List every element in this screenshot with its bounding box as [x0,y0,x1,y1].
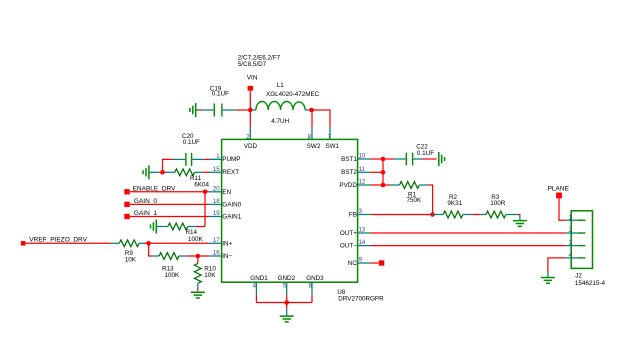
pin SW1 7 [325,127,339,150]
wire VREF to R9 [25,242,119,244]
svg-text:100R: 100R [490,200,506,207]
wire BST vertical link [382,159,384,185]
pin NC 9 [348,258,371,268]
pin OUT- 14 [340,240,371,250]
wire R9 to IN+ [144,242,209,244]
svg-text:19: 19 [213,211,220,217]
resistor R1 750K [400,182,429,205]
svg-text:PVDD: PVDD [339,182,357,189]
wire R3 to ground [517,214,520,220]
inductor L1 XGL4020-472MEC 4.7UH [252,82,319,125]
pin FB 3 [349,209,371,219]
wire C19 to VIN node [223,109,248,111]
pin J2-3 [569,241,586,247]
capacitor C20 0.1UF [182,133,200,166]
ground sideways at C19 [190,103,196,117]
svg-text:14: 14 [359,240,366,246]
svg-text:PUMP: PUMP [222,156,240,163]
resistor R3 100R [480,194,516,218]
pin OUT+ 13 [340,228,371,237]
svg-text:6K04: 6K04 [194,181,209,188]
net GAIN_1 terminal [124,210,157,219]
resistor R10 10K [194,256,216,291]
svg-text:OUT−: OUT− [340,243,357,250]
node FB junction [430,212,435,217]
pin GND1 4 [250,275,268,295]
capacitor C19 0.1UF [210,85,229,116]
pin IN- 16 [209,251,233,261]
pin GAIN1 19 [209,211,242,221]
node EN/R14 junction [203,190,208,195]
pin EN 20 [209,186,232,196]
wire R1 down to FB node [428,185,432,215]
svg-text:5/C8,5/D7: 5/C8,5/D7 [238,61,267,68]
wire OUT+ to J2 [371,232,572,234]
wire GND bus [256,302,312,304]
wire PVDD to R1 [371,184,400,186]
wire up to C20 [163,159,186,172]
svg-text:PLANE: PLANE [548,186,570,193]
svg-text:IN−: IN− [222,253,232,260]
ground sideways at C22 [439,152,445,166]
net VREF_PIEZO_DRV terminal [21,237,88,246]
wire GND2 drop [286,295,288,302]
pin REXT 15 [209,167,240,176]
svg-text:100K: 100K [165,272,181,279]
svg-text:10K: 10K [125,256,137,263]
svg-text:0.1UF: 0.1UF [212,91,229,98]
svg-text:0.1UF: 0.1UF [183,139,200,146]
wire SW1 branch [312,110,331,127]
wire R13 to IN- [186,255,209,257]
wire GAIN_1 to GAIN1 [130,216,209,218]
connector J2 1546215-4 [571,211,605,287]
wire GND3 drop [311,295,313,302]
svg-text:DRV2700RGPR: DRV2700RGPR [338,295,384,302]
wire PLANE to J2 pin1 [559,198,571,220]
wire VDD stub up [249,110,251,127]
svg-text:VDD: VDD [244,143,258,150]
wire NC stub [371,262,379,264]
wire BST2 to node [371,171,384,173]
svg-text:REXT: REXT [222,169,239,176]
svg-text:750K: 750K [407,197,423,204]
wire J2 pin4 to ground [548,258,571,277]
svg-text:17: 17 [213,238,220,244]
capacitor C22 0.1UF [406,143,434,165]
pin GND2 5 [278,275,296,295]
svg-text:GND1: GND1 [250,275,268,282]
pin BST2 11 [341,167,370,176]
wire R2 to R3 [472,214,480,216]
op-amp U8 DRV2700RGPR body [222,139,385,302]
pin GND3 6 [306,275,324,295]
ground below GND2 [280,316,294,322]
ground below R3 [513,221,527,227]
svg-text:J2: J2 [575,273,582,280]
svg-text:GAIN_0: GAIN_0 [134,198,158,205]
svg-text:OUT+: OUT+ [340,230,357,237]
resistor R14 100K [157,223,204,243]
svg-text:GND3: GND3 [306,275,324,282]
node IN-/R10 junction [196,254,201,259]
net PLANE terminal [548,186,570,199]
wire GND1 drop [255,295,257,302]
ground sideways at C20 [143,165,149,179]
wire ground to PUMP/REXT node [150,171,163,173]
svg-text:XGL4020-472MEC: XGL4020-472MEC [266,91,320,98]
node BST2 junction [381,170,386,175]
svg-text:SW2: SW2 [307,143,321,150]
node GND junction [284,300,289,305]
svg-text:1546215-4: 1546215-4 [575,280,606,287]
ground below R10 [191,292,205,298]
svg-text:GAIN0: GAIN0 [222,202,241,209]
wire FB to node [371,214,433,216]
svg-text:BST1: BST1 [341,156,357,163]
node C20/R11 junction [160,170,165,175]
svg-text:GND2: GND2 [278,275,296,282]
wire EN node down to R14 [204,192,206,227]
ground sideways at R14 [151,220,157,234]
svg-text:VREF_PIEZO_DRV: VREF_PIEZO_DRV [29,237,87,244]
wire junction down to R13 row [149,243,152,256]
net GAIN_0 terminal [124,198,157,207]
svg-text:18: 18 [213,199,220,205]
wire ground to C19 [196,109,213,111]
node BST1 junction [381,157,386,162]
wire R14 to EN node [196,226,205,228]
wire C22 to ground [413,158,436,160]
svg-text:16: 16 [213,251,220,257]
svg-text:GAIN1: GAIN1 [222,214,241,221]
svg-text:NC: NC [348,260,358,267]
resistor R9 10K [119,240,144,263]
resistor R13 100K [152,253,186,279]
pin J2-1 [569,215,586,221]
node L1/SW junction [309,108,314,113]
node IN+/R13 junction [146,241,151,246]
svg-text:100K: 100K [188,236,204,243]
wire GAIN_0 to GAIN0 [130,203,209,205]
svg-text:9K31: 9K31 [447,200,462,207]
terminal NC square [379,260,384,265]
pin BST1 10 [341,154,370,164]
svg-text:0.1UF: 0.1UF [417,150,434,157]
wire VIN down to node [249,91,251,110]
svg-text:SW1: SW1 [325,143,339,150]
svg-text:VIN: VIN [247,75,258,82]
wire BST1 to C22 [371,158,406,160]
svg-text:15: 15 [213,167,220,173]
wire C20 to PUMP [192,158,221,160]
wire R11 to REXT [163,171,210,173]
ground below J2 pin4 [541,278,555,284]
pin PUMP 1 [209,154,241,163]
pin VDD 2 [244,127,258,150]
node VIN/L1/C19 junction [248,108,253,113]
svg-text:L1: L1 [277,82,285,89]
node PVDD junction [381,183,386,188]
svg-text:11: 11 [359,167,366,173]
svg-text:10: 10 [359,154,366,160]
resistor R11 6K04 [166,169,210,188]
svg-text:10K: 10K [204,272,216,279]
pin IN+ 17 [209,238,233,248]
net ENABLE_DRV terminal [124,185,176,194]
wire GND junction down [286,303,288,316]
svg-text:20: 20 [213,186,220,192]
pin J2-4 [569,253,586,259]
wire ENABLE_DRV to EN [130,191,209,193]
resistor R2 9K31 [433,194,473,218]
svg-text:4.7UH: 4.7UH [271,118,289,125]
wire OUT- to J2 [371,245,572,247]
svg-text:EN: EN [222,189,231,196]
svg-text:12: 12 [359,180,366,186]
wire SW2 drop [311,110,313,127]
svg-text:13: 13 [359,228,366,234]
svg-text:FB: FB [349,212,357,219]
pin J2-2 [569,228,586,234]
pin PVDD 12 [339,180,370,190]
net VIN terminal [238,55,281,91]
svg-text:BST2: BST2 [341,169,357,176]
svg-text:IN+: IN+ [222,240,232,247]
pin SW2 8 [307,127,321,150]
pin GAIN0 18 [209,199,242,209]
